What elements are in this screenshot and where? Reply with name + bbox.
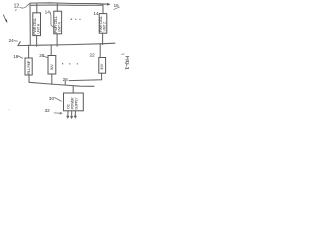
ellipsis middle row bbox=[62, 63, 78, 64]
wire drop bus to box B3 bbox=[102, 5, 104, 14]
wire arrow 32 to B7 bbox=[54, 112, 62, 114]
svg-text:UNIT N: UNIT N bbox=[58, 21, 62, 32]
wire B6 output left run bbox=[69, 73, 102, 80]
wire label 16 underline bbox=[113, 7, 119, 10]
wire collector line bbox=[29, 82, 94, 86]
box B4 bbox=[25, 58, 32, 75]
svg-text:UNIT Z: UNIT Z bbox=[102, 22, 106, 32]
svg-text:FIG-1: FIG-1 bbox=[124, 56, 130, 70]
svg-text:INV: INV bbox=[100, 63, 104, 69]
wire drop bus to box B2 bbox=[56, 4, 58, 11]
wire connector to collector bbox=[64, 81, 66, 84]
svg-text:FILL PMP: FILL PMP bbox=[27, 60, 31, 75]
node top bus arrow end bbox=[107, 3, 110, 6]
wire drop B4 to collector bbox=[28, 75, 30, 82]
pin 1 of B7 bbox=[67, 111, 69, 118]
wire drop bus to box B1 bbox=[36, 4, 38, 13]
svg-text:28: 28 bbox=[63, 77, 69, 82]
svg-text:24: 24 bbox=[9, 38, 15, 43]
wire second bus bbox=[18, 42, 115, 46]
wire drop B1 to bus2 bbox=[36, 36, 38, 47]
wire drop collector to box B7 bbox=[72, 86, 74, 93]
wire leader from 14 to B2 bbox=[50, 12, 53, 27]
svg-text:20: 20 bbox=[39, 53, 45, 58]
box B5 bbox=[48, 56, 56, 75]
wire left rail bbox=[29, 3, 31, 45]
svg-text:14: 14 bbox=[45, 9, 51, 15]
pin 3 of B7 bbox=[74, 111, 76, 118]
box B1 bbox=[33, 13, 41, 36]
svg-text:22: 22 bbox=[90, 52, 96, 57]
svg-text:32: 32 bbox=[45, 108, 51, 113]
svg-text:18: 18 bbox=[13, 54, 19, 59]
wire drop B5 to collector bbox=[51, 74, 53, 84]
wire drop bus2 to box B5 bbox=[50, 45, 52, 56]
wire top bus lower line bbox=[30, 4, 103, 6]
box B2 bbox=[54, 11, 62, 34]
wire leader curve from label 12 to bus bbox=[20, 3, 30, 8]
wire drop B3 to bus2 bbox=[102, 33, 104, 44]
svg-text:UNIT A: UNIT A bbox=[37, 23, 41, 34]
label FIG-1 bbox=[121, 53, 124, 55]
wire top bus upper line bbox=[30, 3, 108, 4]
arrow reference 10 bbox=[3, 14, 6, 20]
pin 2 of B7 bbox=[71, 111, 73, 118]
box B7 power supply bbox=[64, 93, 84, 111]
speck bbox=[9, 109, 10, 110]
svg-text:30: 30 bbox=[49, 96, 55, 101]
svg-text:16: 16 bbox=[114, 3, 120, 8]
svg-text:SUPPLY: SUPPLY bbox=[74, 97, 78, 110]
svg-text:INV: INV bbox=[50, 64, 54, 70]
wire leader 20 to B5 bbox=[43, 56, 48, 58]
wire leader 18 to B4 bbox=[18, 56, 23, 59]
wire drop B2 to bus2 bbox=[56, 34, 58, 46]
wire drop bus2 to box B4 bbox=[28, 45, 30, 58]
wire leader 30 to B7 bbox=[54, 97, 61, 101]
svg-text:14: 14 bbox=[93, 11, 99, 16]
box B3 bbox=[99, 14, 107, 34]
wire drop bus2 to box B6 bbox=[99, 44, 101, 58]
wire arrow 24 to bus2 bbox=[14, 40, 18, 43]
box B6 bbox=[99, 58, 106, 74]
ellipsis top row bbox=[71, 19, 81, 20]
